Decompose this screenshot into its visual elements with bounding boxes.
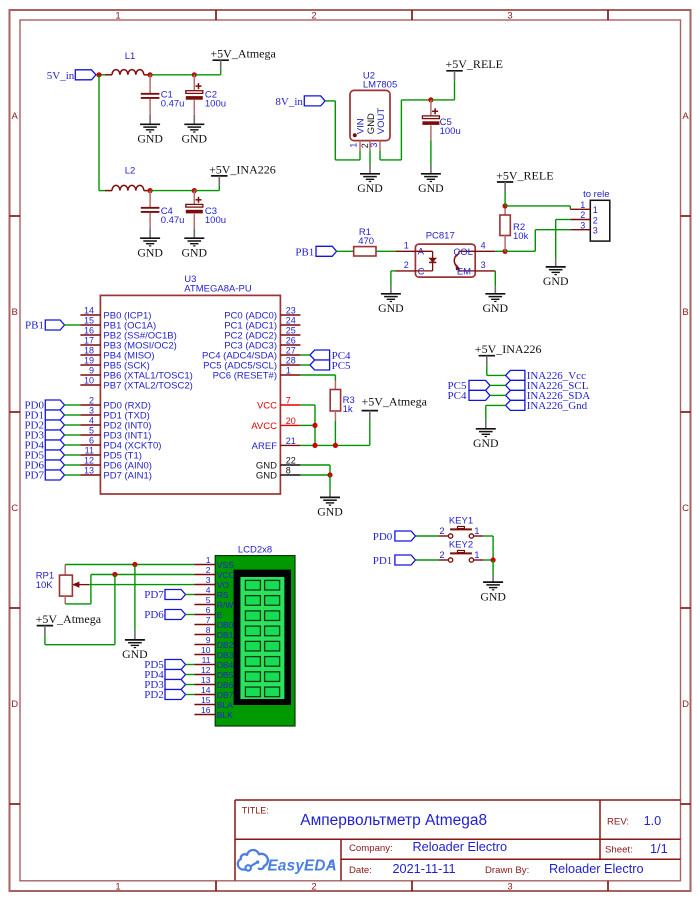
U3 pin 28 PC5: [203, 356, 300, 372]
svg-text:8V_in: 8V_in: [275, 96, 303, 108]
svg-text:KEY2: KEY2: [449, 540, 473, 551]
port PD6 mcu: [24, 460, 64, 472]
svg-text:12: 12: [84, 456, 94, 466]
U3 pin 26 PC3: [224, 336, 300, 352]
port PD5 mcu: [24, 450, 64, 462]
svg-text:VO: VO: [217, 580, 230, 590]
wire COL to relay pin3: [505, 230, 570, 252]
U3 pin 11 PD5: [80, 446, 142, 462]
svg-text:4: 4: [206, 585, 211, 595]
LCD pin 4 RS: [194, 585, 229, 600]
power flag +5V_INA226: [209, 162, 276, 190]
resistor R2: [500, 206, 529, 251]
svg-text:25: 25: [286, 326, 296, 336]
svg-text:PC817: PC817: [426, 230, 455, 241]
wire PD4 to LCD: [186, 674, 195, 676]
svg-text:10K: 10K: [36, 580, 54, 591]
LCD pin 16 BLK: [194, 705, 233, 720]
svg-text:D: D: [682, 699, 689, 710]
svg-text:PB7 (XTAL2/TOSC2): PB7 (XTAL2/TOSC2): [103, 381, 192, 392]
wire PC4 to INA226_SDA: [490, 394, 506, 396]
node GND junction: [327, 472, 332, 477]
svg-text:2: 2: [404, 260, 409, 270]
title text: [300, 812, 487, 829]
svg-text:DB3: DB3: [217, 650, 234, 660]
svg-text:R/W: R/W: [217, 600, 234, 610]
wire C5 to +5V_RELE: [431, 99, 455, 101]
svg-text:3: 3: [593, 226, 598, 236]
svg-text:4: 4: [89, 416, 94, 426]
node VSS junction: [132, 562, 137, 567]
Date value: [393, 862, 456, 876]
svg-text:PD7: PD7: [144, 589, 164, 601]
svg-text:13: 13: [84, 466, 94, 476]
svg-text:10: 10: [84, 376, 94, 386]
power flag +5V_Atmega mcu: [362, 394, 428, 445]
svg-text:23: 23: [286, 306, 296, 316]
Company label: [349, 843, 393, 854]
svg-text:Ампервольтметр Atmega8: Ампервольтметр Atmega8: [300, 812, 487, 829]
U3 pin 14 PB0: [80, 306, 151, 322]
port PD4 lcd: [144, 669, 185, 681]
svg-text:PD7 (AIN1): PD7 (AIN1): [103, 471, 152, 482]
svg-text:LCD2x8: LCD2x8: [238, 545, 272, 556]
wire PD6 to LCD E: [186, 614, 195, 616]
U3 pin 18 PB4: [80, 346, 154, 362]
svg-text:VCC: VCC: [217, 570, 235, 580]
svg-text:GND: GND: [357, 181, 383, 195]
U3 pin 24 PC1: [224, 316, 300, 332]
wire PD0 to KEY1: [416, 535, 439, 537]
ground under keys: [480, 574, 506, 603]
svg-text:8: 8: [206, 625, 211, 635]
wire PD3 to U3: [65, 434, 81, 436]
svg-text:21: 21: [286, 436, 296, 446]
port INA226_SDA: [506, 390, 591, 402]
port PD6 lcd: [144, 609, 185, 621]
ground under C1: [137, 115, 163, 146]
wire PB1 to U3: [65, 324, 81, 326]
potentiometer RP1: [36, 565, 89, 604]
svg-text:0.47u: 0.47u: [161, 98, 185, 109]
wire U2 pin2 to ground: [369, 151, 371, 164]
node AVCC junction: [312, 423, 317, 428]
Date label: [349, 865, 372, 876]
LCD pin 2 VCC: [194, 565, 234, 580]
wire L2 to C4: [144, 190, 150, 192]
port INA226_Vcc: [506, 370, 586, 382]
svg-text:11: 11: [202, 655, 211, 665]
PC817 pin 4: [475, 240, 495, 251]
svg-text:2: 2: [593, 215, 598, 225]
LCD pin 9 DB2: [194, 635, 233, 650]
node C2 junction: [192, 72, 197, 77]
U3 pin 12 PD6: [80, 456, 152, 472]
port PD4 mcu: [24, 440, 64, 452]
node C1 junction: [148, 72, 153, 77]
wire PC817 pin2 to ground: [391, 271, 396, 286]
port PD5 lcd: [144, 659, 185, 671]
U3 pin 6 PD4: [80, 436, 161, 452]
node AREF-R3 junction: [333, 443, 338, 448]
svg-text:DB0: DB0: [217, 620, 234, 630]
svg-text:22: 22: [286, 456, 296, 466]
svg-text:2: 2: [89, 396, 94, 406]
svg-text:INA226_Gnd: INA226_Gnd: [527, 400, 588, 412]
svg-text:BLA: BLA: [217, 700, 233, 710]
Sheet value: [650, 842, 668, 856]
wire 5V_in to L1: [96, 74, 112, 76]
port PD0 mcu: [24, 400, 64, 412]
U3 pin 9 PB6: [80, 366, 192, 382]
svg-text:+5V_RELE: +5V_RELE: [446, 57, 503, 71]
LCD pin 13 DB6: [194, 675, 233, 690]
wire GND down: [329, 475, 331, 492]
port INA226_Gnd: [506, 400, 588, 412]
inductor L2: [112, 166, 144, 191]
svg-text:470: 470: [358, 236, 374, 247]
DrawnBy value: [549, 862, 644, 876]
power flag +5V_Atmega: [210, 47, 276, 75]
wire +5V to INA226_Vcc: [487, 374, 506, 376]
svg-text:3: 3: [580, 220, 585, 230]
LCD pin 7 DB0: [194, 615, 233, 630]
svg-text:19: 19: [84, 356, 94, 366]
svg-text:VOUT: VOUT: [376, 108, 387, 135]
wire VSS to ground: [134, 565, 136, 630]
wire VSS row: [65, 564, 194, 566]
svg-text:16: 16: [201, 705, 211, 715]
port PD2 lcd: [144, 689, 185, 701]
regulator U2 LM7805: [350, 70, 397, 140]
port PC5 mcu: [310, 360, 351, 372]
wire KEY2 to ground: [483, 559, 493, 561]
PC817 internal phototransistor: [453, 247, 475, 277]
svg-text:+5V_Atmega: +5V_Atmega: [36, 612, 102, 626]
svg-text:13: 13: [201, 675, 211, 685]
svg-text:1: 1: [593, 205, 598, 215]
LCD pin 15 BLA: [194, 695, 233, 710]
svg-text:DB7: DB7: [217, 690, 234, 700]
svg-text:7: 7: [206, 615, 211, 625]
LCD pin 10 DB3: [194, 645, 233, 660]
capacitor C2: [186, 75, 226, 115]
node KEY junction: [491, 557, 496, 562]
svg-text:1: 1: [474, 550, 479, 561]
ground under C4: [137, 229, 163, 260]
svg-text:PD0: PD0: [373, 531, 393, 543]
svg-text:PC5: PC5: [332, 360, 351, 372]
svg-text:to rele: to rele: [583, 189, 609, 200]
ground under C5: [418, 164, 444, 195]
node 5V_in junction: [96, 72, 101, 77]
ground under relay: [543, 259, 569, 288]
power flag +5V_RELE lower: [496, 168, 553, 206]
LCD pin 11 DB4: [194, 655, 233, 670]
ground under C2: [182, 115, 208, 146]
port 5V_in: [47, 70, 96, 82]
wire PB1 to R1: [337, 250, 354, 252]
svg-text:100u: 100u: [205, 215, 226, 226]
PC817 pin 1: [395, 240, 415, 251]
capacitor C4: [141, 191, 185, 229]
power flag +5V_RELE top: [446, 57, 503, 100]
wire R1 to PC817 pin1: [376, 250, 395, 252]
svg-text:GND: GND: [418, 181, 444, 195]
node R2 top junction: [503, 203, 508, 208]
ground under U2: [357, 164, 383, 195]
U3 pin 3 PD1: [80, 406, 149, 422]
ground under C3: [182, 229, 208, 260]
svg-text:3: 3: [507, 11, 512, 22]
U3 pin 23 PC0: [224, 306, 300, 322]
svg-text:10k: 10k: [513, 231, 529, 242]
svg-text:+5V_INA226: +5V_INA226: [475, 342, 542, 356]
U3 pin 4 PD2: [80, 416, 151, 432]
U3 pin 13 PD7: [80, 466, 152, 482]
node C4 junction: [148, 188, 153, 193]
port PD1 key: [373, 555, 416, 567]
svg-text:DB5: DB5: [217, 670, 234, 680]
svg-text:KEY1: KEY1: [449, 516, 473, 527]
svg-text:DB4: DB4: [217, 660, 234, 670]
LCD pin 1 VSS: [194, 555, 234, 570]
U3 pin 25 PC2: [224, 326, 300, 342]
wire PD7 to U3: [65, 474, 81, 476]
power flag +5V_INA226 right: [475, 342, 542, 375]
svg-text:1.0: 1.0: [644, 814, 662, 828]
svg-text:GND: GND: [483, 301, 509, 315]
U3 pin 16 PB2: [80, 326, 176, 342]
REV label: [607, 817, 629, 828]
wire U2 pin3 to C5: [380, 100, 431, 160]
svg-text:PC4: PC4: [448, 390, 467, 402]
svg-text:11: 11: [85, 446, 94, 456]
port PC5 ina: [448, 380, 490, 392]
svg-text:1: 1: [404, 240, 409, 250]
svg-text:GND: GND: [480, 589, 506, 603]
port 8V_in: [275, 96, 325, 108]
svg-text:4: 4: [481, 240, 486, 250]
svg-text:EasyEDA: EasyEDA: [268, 858, 337, 875]
REV value: [644, 814, 662, 828]
svg-text:REV:: REV:: [607, 817, 629, 828]
port PD0 key: [373, 531, 416, 543]
port PC4 ina: [448, 390, 490, 402]
svg-text:1: 1: [115, 11, 120, 22]
wire 8V_in to U2 pin1: [325, 101, 360, 160]
LCD pin 3 VO: [194, 575, 229, 590]
title block TITLE label: [242, 805, 269, 815]
wire C2 to +5V_Atmega: [194, 74, 220, 76]
port PD7 lcd: [144, 589, 185, 601]
wire C1 to C2: [150, 74, 194, 76]
svg-text:24: 24: [286, 316, 296, 326]
svg-text:2021-11-11: 2021-11-11: [393, 862, 456, 876]
svg-text:B: B: [12, 307, 18, 318]
relay connector pin 2: [570, 210, 598, 225]
ground under U3: [317, 492, 343, 519]
svg-text:1k: 1k: [343, 404, 353, 415]
port INA226_SCL: [506, 380, 589, 392]
title block lines: [235, 800, 681, 881]
wire AREF: [300, 444, 369, 446]
Sheet label: [605, 844, 633, 855]
svg-text:2: 2: [580, 210, 585, 220]
svg-text:+5V_RELE: +5V_RELE: [496, 168, 553, 182]
wire +5V to VCC row: [45, 575, 115, 645]
wire R2 to relay pin1: [505, 206, 570, 209]
svg-text:DB2: DB2: [217, 640, 234, 650]
svg-text:PB1: PB1: [295, 247, 314, 259]
svg-text:12: 12: [201, 665, 211, 675]
wire PD1 to U3: [65, 414, 81, 416]
svg-text:3: 3: [206, 575, 211, 585]
PC817 pin 3: [475, 260, 495, 271]
PC817 internal LED: [415, 247, 436, 278]
wire KEY down: [492, 560, 494, 574]
svg-text:GND: GND: [543, 274, 569, 288]
svg-text:Company:: Company:: [349, 843, 393, 854]
capacitor C1: [141, 75, 185, 115]
svg-text:+5V_Atmega: +5V_Atmega: [362, 394, 428, 408]
svg-text:100u: 100u: [205, 98, 226, 109]
svg-text:28: 28: [286, 356, 296, 366]
svg-text:5: 5: [89, 426, 94, 436]
wire L1 to C1: [144, 74, 150, 76]
U3 pin 21 AREF: [252, 436, 301, 452]
svg-text:PB1: PB1: [25, 320, 44, 332]
svg-text:2: 2: [439, 550, 444, 561]
svg-text:L2: L2: [125, 166, 136, 177]
port PB1 opto: [295, 246, 336, 258]
wire VCC row: [91, 574, 194, 576]
U3 pin 10 PB7: [80, 376, 192, 392]
LCD pin 5 R/W: [194, 595, 233, 610]
mcu U3 ATMEGA8A-PU body: [100, 274, 280, 494]
svg-text:9: 9: [206, 635, 211, 645]
svg-text:2: 2: [311, 11, 316, 22]
wire PD5 to U3: [65, 454, 81, 456]
svg-text:2: 2: [439, 526, 444, 537]
svg-text:Reloader Electro: Reloader Electro: [549, 862, 644, 876]
wire U3 to PC5 port: [300, 364, 310, 366]
ground under PC817 pin3: [483, 286, 509, 315]
U3 pin 19 PB5: [80, 356, 149, 372]
ground under INA226: [473, 420, 499, 450]
svg-text:GND: GND: [317, 505, 343, 519]
svg-text:17: 17: [84, 336, 94, 346]
svg-text:6: 6: [206, 605, 211, 615]
wire wiper to VO row: [89, 584, 194, 586]
U3 pin 20 AVCC: [251, 416, 300, 432]
wire PD0 to U3: [65, 404, 81, 406]
capacitor C5: [422, 100, 460, 164]
U2 pin 2: [360, 141, 370, 151]
ground under PC817 pin2: [378, 286, 404, 315]
svg-text:ATMEGA8A-PU: ATMEGA8A-PU: [184, 284, 252, 295]
svg-text:1: 1: [474, 526, 479, 537]
relay connector pin 3: [570, 220, 598, 235]
svg-text:R: R: [330, 860, 333, 865]
port PC4 mcu: [310, 350, 351, 362]
svg-text:+5V_INA226: +5V_INA226: [209, 162, 276, 176]
U3 pin 1 PC6: [213, 366, 301, 382]
port PB1 mcu: [25, 320, 64, 332]
wire U3 to PC4 port: [300, 354, 310, 356]
lcd character cells: [245, 580, 279, 696]
resistor R3: [330, 381, 355, 422]
wire C4 to C3: [150, 190, 194, 192]
svg-text:GND: GND: [182, 132, 208, 146]
U3 pin 22 GND: [256, 456, 301, 472]
wire PD2 to U3: [65, 424, 81, 426]
U3 pin 15 PB1: [80, 316, 156, 332]
svg-text:DB1: DB1: [217, 630, 234, 640]
U2 pin 1: [349, 141, 360, 151]
svg-text:EM: EM: [457, 266, 471, 277]
svg-text:14: 14: [201, 685, 211, 695]
svg-text:AREF: AREF: [252, 441, 278, 452]
svg-text:7: 7: [286, 396, 291, 406]
svg-text:1: 1: [286, 366, 291, 376]
svg-text:PD2: PD2: [144, 689, 164, 701]
svg-text:PD6: PD6: [144, 609, 164, 621]
wire PD2 to LCD: [186, 694, 195, 696]
wire relay pin2 to ground: [556, 220, 571, 260]
svg-text:1/1: 1/1: [650, 842, 668, 856]
svg-text:VSS: VSS: [217, 560, 234, 570]
resistor R1: [354, 227, 376, 256]
wire PD5 to LCD: [186, 664, 195, 666]
svg-text:PD7: PD7: [24, 470, 44, 482]
wire VCC down: [300, 405, 315, 445]
PC817 pin 2: [395, 260, 415, 271]
node AREF-VCC junction: [312, 443, 317, 448]
svg-text:A: A: [682, 111, 689, 122]
U2 pin 3: [369, 141, 380, 151]
svg-text:GND: GND: [256, 471, 277, 482]
port PD3 mcu: [24, 430, 64, 442]
svg-text:2: 2: [206, 565, 211, 575]
svg-text:BLK: BLK: [217, 710, 233, 720]
svg-text:8: 8: [286, 466, 291, 476]
wire PD7 to LCD RS: [186, 594, 195, 596]
U3 pin 17 PB3: [80, 336, 176, 352]
wire PD3 to LCD: [186, 684, 195, 686]
svg-text:D: D: [11, 699, 18, 710]
switch KEY2: [439, 540, 484, 563]
wire PC817 pin4 to R2: [495, 250, 505, 252]
svg-text:Reloader Electro: Reloader Electro: [413, 840, 508, 854]
port PD3 lcd: [144, 679, 185, 691]
svg-text:5V_in: 5V_in: [47, 70, 75, 82]
svg-text:1: 1: [580, 200, 585, 210]
U3 pin 8 GND: [256, 466, 301, 482]
svg-text:1: 1: [206, 555, 211, 565]
svg-text:GND: GND: [473, 436, 499, 450]
EasyEDA logo: [238, 850, 337, 875]
node C3 junction: [192, 188, 197, 193]
svg-text:1: 1: [349, 143, 359, 148]
svg-text:B: B: [682, 307, 688, 318]
svg-text:10: 10: [201, 645, 211, 655]
svg-text:3: 3: [369, 143, 379, 148]
svg-text:0.47u: 0.47u: [161, 215, 185, 226]
wire INA226_Gnd to ground: [486, 405, 506, 419]
svg-text:Date:: Date:: [349, 865, 372, 876]
LCD pin 14 DB7: [194, 685, 233, 700]
